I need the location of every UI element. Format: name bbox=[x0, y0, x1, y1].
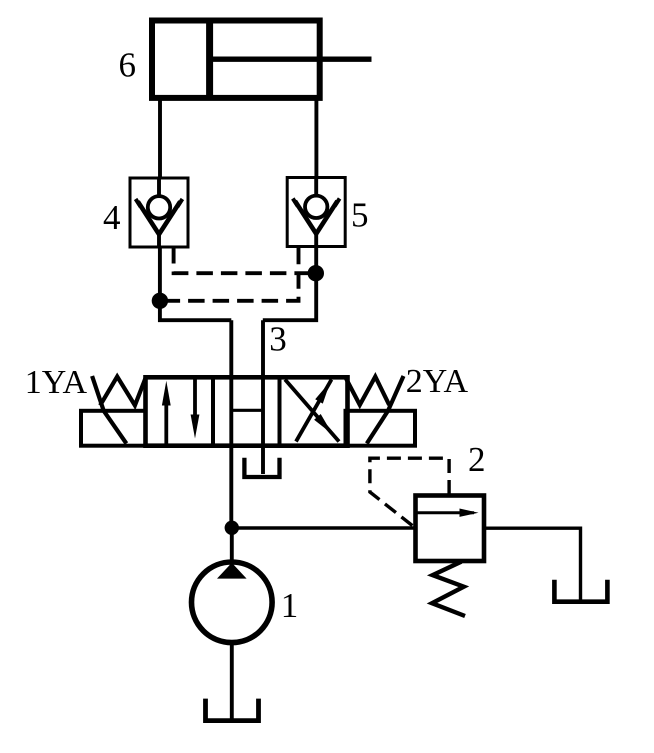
spring left bbox=[100, 377, 146, 406]
check valve 4 outlet stub bbox=[157, 233, 161, 247]
pilot line from valve5 (dashed) bbox=[160, 248, 299, 301]
check valve 5 outlet stub bbox=[314, 233, 318, 247]
wire pump pressure line to relief bbox=[232, 526, 416, 529]
check valve 5 box bbox=[287, 178, 345, 247]
check valve 4 seat tick right bbox=[177, 199, 182, 207]
check valve 4 ball bbox=[148, 196, 170, 218]
cylinder piston bbox=[206, 18, 213, 101]
valve V3 right position crossed arrow down bbox=[285, 380, 339, 442]
check valve 4 box bbox=[130, 178, 188, 247]
tank under valve bbox=[244, 458, 279, 477]
pilot line from valve4 (dashed) bbox=[174, 247, 316, 273]
pump P1 flow triangle bbox=[217, 563, 247, 579]
valve V3 body bbox=[146, 377, 348, 445]
svg-text:2: 2 bbox=[468, 440, 486, 479]
solenoid right box bbox=[346, 411, 416, 446]
wire relief outlet to tank bbox=[484, 528, 581, 601]
cylinder piston rod bbox=[210, 57, 372, 62]
relief valve R2 box bbox=[416, 496, 485, 562]
check valve 4 seat tick left bbox=[136, 199, 141, 207]
check valve 5 seat tick left bbox=[293, 199, 298, 207]
junction node on valve4 line bbox=[152, 293, 168, 309]
relief valve flow arrow bbox=[416, 511, 475, 514]
wire B/T line vertical bbox=[261, 320, 265, 474]
check valve C5 bbox=[287, 178, 345, 247]
svg-text:3: 3 bbox=[269, 320, 287, 359]
wire cylinder left port bbox=[158, 98, 162, 179]
cylinder U1 body bbox=[152, 21, 320, 98]
check valve 5 inlet stub bbox=[314, 178, 318, 197]
spring right bbox=[345, 377, 389, 405]
solenoid left diagonal bbox=[92, 376, 126, 444]
pump P1 circle bbox=[192, 562, 273, 643]
check valve C4 bbox=[130, 178, 188, 247]
wire valve4 outlet elbow to A-line bbox=[160, 247, 231, 320]
wire junction to pump bbox=[230, 528, 234, 563]
valve V3 center crossbar bbox=[231, 409, 263, 412]
check valve 4 seat V bbox=[138, 202, 180, 235]
junction node pump outlet bbox=[225, 521, 239, 535]
wire A/P line vertical bbox=[229, 320, 233, 528]
svg-text:4: 4 bbox=[103, 198, 121, 237]
tank relief bbox=[554, 580, 607, 602]
check valve 4 inlet stub bbox=[157, 178, 161, 197]
valve V3 right position crossed arrow up bbox=[296, 380, 332, 442]
check valve 5 seat tick right bbox=[335, 199, 340, 207]
valve V3 left position down arrow bbox=[193, 380, 197, 423]
wire cylinder right port bbox=[314, 98, 318, 178]
svg-text:6: 6 bbox=[119, 46, 137, 85]
valve V3 partition right bbox=[278, 377, 282, 445]
svg-text:2YA: 2YA bbox=[406, 363, 469, 400]
check valve 5 ball bbox=[305, 196, 327, 218]
relief valve pilot dashed bbox=[370, 458, 449, 526]
wire pump inlet to tank bbox=[230, 643, 234, 719]
tank pump bbox=[206, 699, 259, 721]
svg-text:1: 1 bbox=[281, 586, 299, 625]
junction node on valve5 line bbox=[308, 265, 324, 281]
svg-text:1YA: 1YA bbox=[25, 364, 88, 401]
wire valve5 outlet elbow to B-line bbox=[263, 248, 316, 321]
solenoid right diagonal bbox=[367, 376, 404, 444]
svg-text:5: 5 bbox=[351, 196, 369, 235]
solenoid left box bbox=[81, 411, 146, 446]
valve V3 left position up arrow bbox=[164, 398, 168, 444]
check valve 5 seat V bbox=[295, 201, 337, 234]
valve V3 partition left bbox=[211, 377, 215, 445]
relief valve spring bbox=[432, 562, 465, 616]
